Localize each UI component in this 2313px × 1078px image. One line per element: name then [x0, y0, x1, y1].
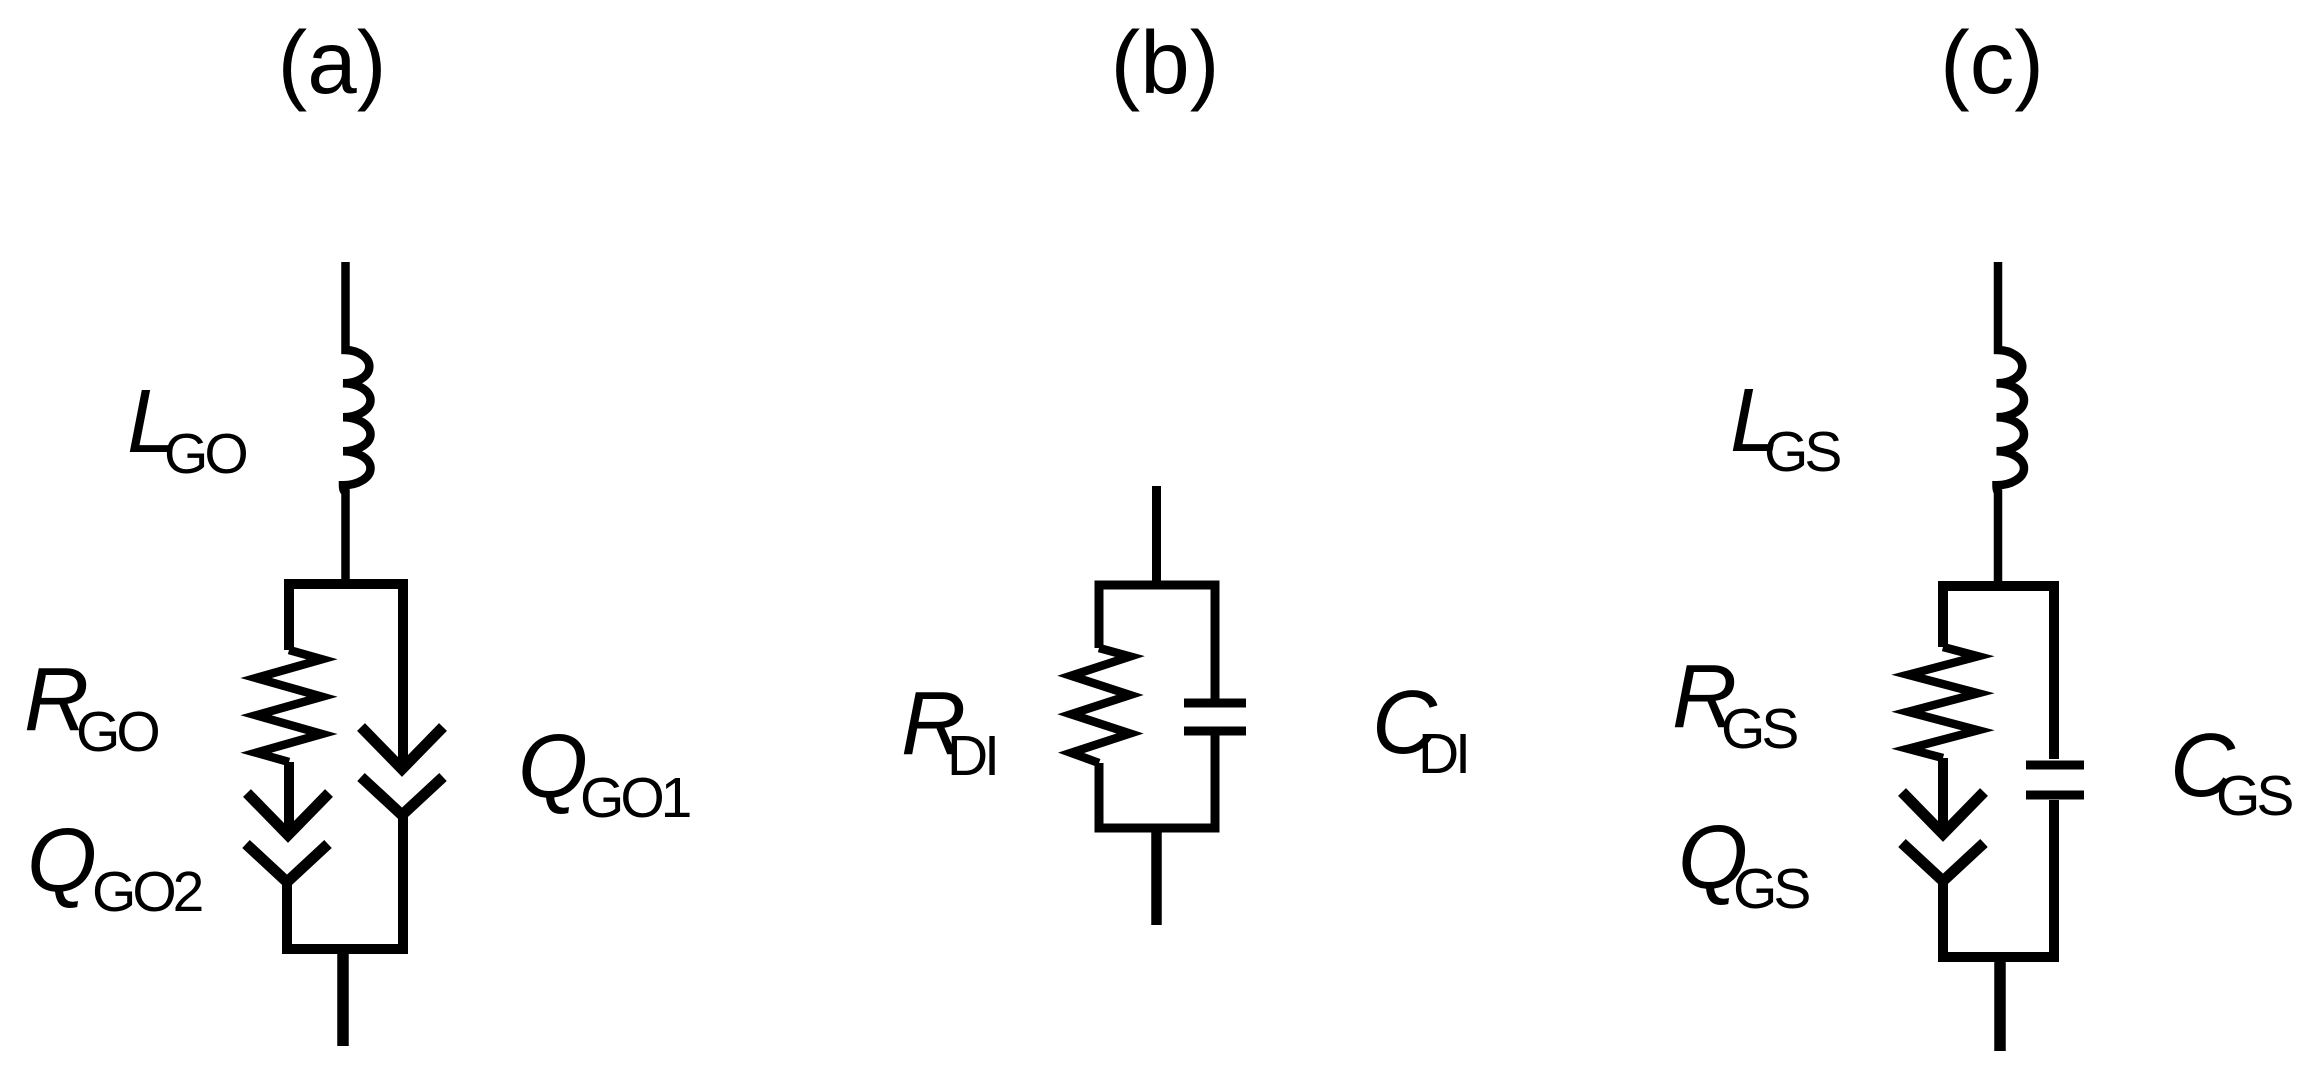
- svg-text:(c): (c): [1940, 12, 2044, 112]
- svg-text:GS: GS: [2216, 764, 2292, 828]
- svg-text:GS: GS: [1733, 857, 1809, 921]
- svg-text:DI: DI: [1418, 722, 1467, 786]
- svg-text:GS: GS: [1721, 697, 1797, 761]
- svg-text:Q: Q: [27, 811, 97, 911]
- svg-text:GS: GS: [1764, 420, 1840, 484]
- svg-text:(a): (a): [278, 12, 387, 112]
- svg-text:Q: Q: [518, 717, 588, 817]
- svg-text:GO: GO: [76, 700, 158, 764]
- svg-text:GO: GO: [164, 422, 246, 486]
- svg-text:GO1: GO1: [580, 766, 690, 830]
- svg-text:(b): (b): [1111, 12, 1220, 112]
- svg-text:DI: DI: [947, 724, 996, 788]
- svg-text:GO2: GO2: [92, 860, 202, 924]
